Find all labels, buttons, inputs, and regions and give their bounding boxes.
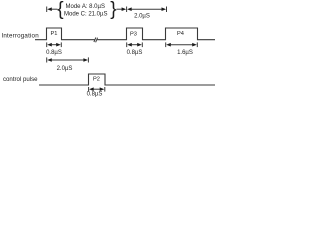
dimension P2 width 0.8uS: ticks — [88, 87, 90, 92]
dimension P2 width: arrowheads and line — [89, 87, 94, 91]
dimension P1-to-P3 spacing: left line — [52, 8, 58, 10]
dimension P1-to-P2 2.0uS: right tick — [87, 57, 89, 62]
svg-text:Mode C: 21.0µS: Mode C: 21.0µS — [64, 12, 107, 18]
dimension P1-to-P3 spacing: right tick (shared with 2.0uS dim) — [126, 7, 128, 13]
break symbol on interrogation line — [94, 37, 96, 42]
dimension P1-to-P3 spacing: right line — [117, 8, 123, 10]
svg-text:control pulse: control pulse — [3, 76, 38, 83]
wire control-pulse baseline with pulse P2 — [39, 74, 215, 85]
dimension P1-to-P3 spacing: right arrowhead — [122, 7, 127, 11]
svg-text:P3: P3 — [130, 32, 137, 38]
dimension P3-to-P4 2.0uS: left arrowhead — [127, 7, 132, 11]
svg-text:Mode A: 8.0µS: Mode A: 8.0µS — [66, 4, 105, 10]
svg-text:2.0µS: 2.0µS — [57, 66, 73, 72]
dimension P1-to-P3 spacing: left tick — [46, 7, 48, 13]
dimension P1-to-P2 2.0uS: left arrowhead — [47, 58, 52, 62]
svg-text:1.6µS: 1.6µS — [177, 50, 193, 56]
svg-text:0.8µS: 0.8µS — [46, 50, 62, 56]
svg-text:P2: P2 — [93, 77, 100, 83]
wire interrogation baseline with pulses P1 P3 P4 — [35, 28, 215, 40]
dimension P4 width: arrowheads and line — [166, 43, 171, 47]
svg-text:0.8µS: 0.8µS — [87, 92, 103, 98]
svg-text:Interrogation: Interrogation — [2, 33, 40, 40]
dimension P1-to-P2 2.0uS: right arrowhead — [83, 58, 88, 62]
dimension P1-to-P2 2.0uS: left tick — [46, 57, 48, 62]
svg-text:}: } — [110, 0, 116, 20]
dimension P1 width 0.8uS: ticks — [46, 42, 48, 47]
dimension P1-to-P2 2.0uS: line — [52, 59, 84, 61]
dimension P3-to-P4 2.0uS: line — [132, 8, 162, 10]
svg-text:2.0µS: 2.0µS — [134, 14, 150, 20]
svg-text:P1: P1 — [51, 31, 58, 37]
dimension P4 width 1.6uS: ticks — [165, 42, 167, 47]
svg-text:P4: P4 — [177, 31, 184, 37]
dimension P3-to-P4 2.0uS: right tick — [166, 7, 168, 13]
svg-text:0.8µS: 0.8µS — [127, 50, 143, 56]
dimension P3-to-P4 2.0uS: right arrowhead — [162, 7, 167, 11]
dimension P3 width: arrowheads and line — [127, 43, 132, 47]
dimension P1 width: arrowheads and line — [47, 43, 52, 47]
dimension P3 width 0.8uS: ticks — [126, 42, 128, 47]
dimension P1-to-P3 spacing: left arrowhead — [47, 7, 52, 11]
